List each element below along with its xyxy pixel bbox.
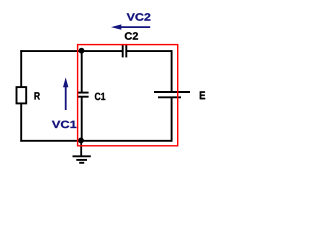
arrow VC2 (voltage across C2) <box>111 24 150 29</box>
wire: top rail from C2 right plate to top-right corner <box>127 50 173 52</box>
wire: right vertical above battery <box>171 50 173 92</box>
wire: right vertical below battery <box>171 97 173 141</box>
capacitor C2 plates <box>123 45 127 58</box>
label VC1 <box>52 121 77 128</box>
wire: top left segment (node top rail) <box>20 50 82 52</box>
wire: left vertical upper (to resistor) <box>20 50 22 87</box>
label C2 <box>125 32 138 39</box>
wire: bottom rail <box>20 140 172 142</box>
label E <box>200 91 205 99</box>
label R <box>35 92 40 99</box>
wire: middle vertical below C1 <box>81 97 83 142</box>
wire: middle vertical above C1 <box>81 50 83 92</box>
resistor R (box symbol) <box>17 87 27 103</box>
ground <box>73 141 91 163</box>
wire: left vertical lower (resistor to bottom rail) <box>20 104 22 142</box>
wire: top rail right of junction up to C2 left plate <box>82 50 122 52</box>
label VC2 <box>127 13 151 20</box>
arrow VC1 (voltage across C1) <box>63 77 68 110</box>
label C1 <box>95 93 105 100</box>
capacitor C1 plates <box>77 93 88 97</box>
highlight loop (red mesh outline) <box>78 45 178 146</box>
battery E (emf source) plates <box>154 92 190 97</box>
junction dot top (node A) <box>79 48 85 54</box>
junction dot bottom (node B) <box>78 138 84 144</box>
